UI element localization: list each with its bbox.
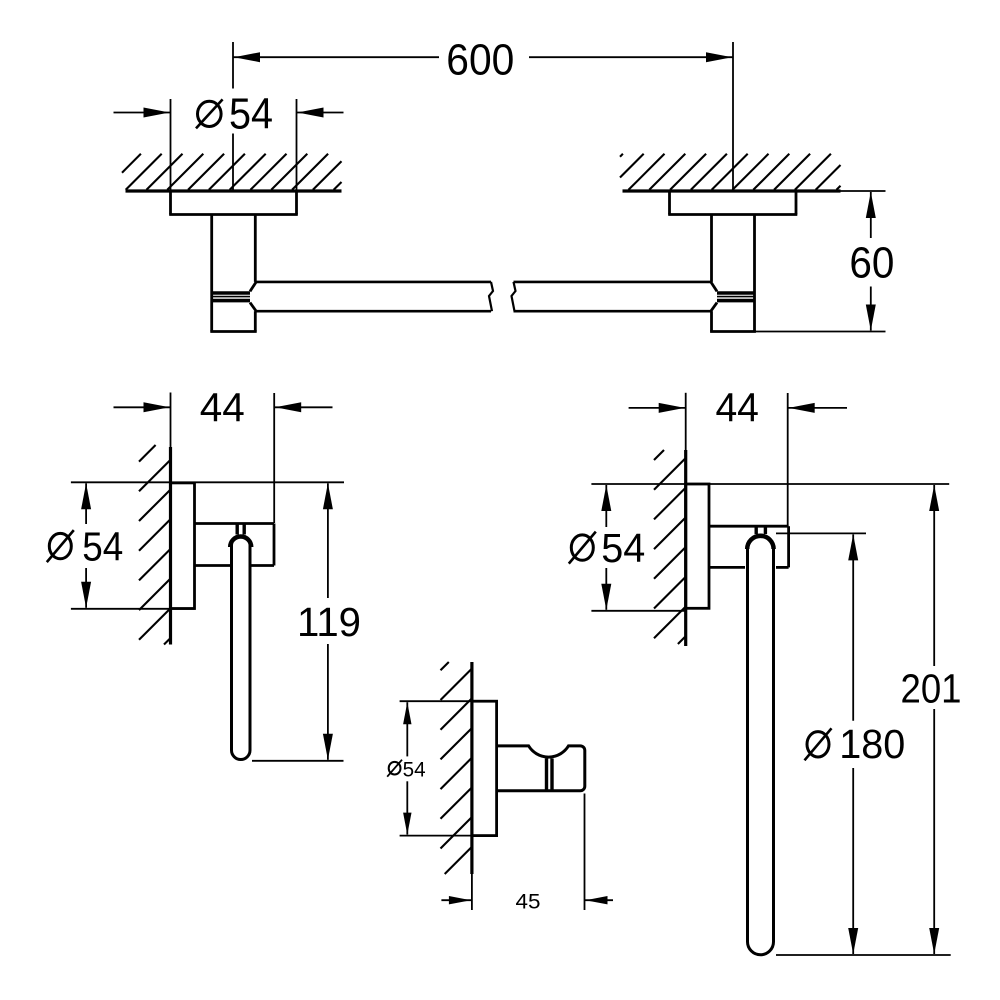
towel bar left segment with break <box>256 282 494 311</box>
svg-text:44: 44 <box>715 384 759 430</box>
wall line (middle-left drawing) <box>170 393 172 645</box>
bottom extension line of rosette (middle-right) <box>591 610 685 612</box>
top extension line of ring (D180) <box>776 532 866 534</box>
right bar-to-post cone <box>711 282 717 311</box>
dimension 45 (hook depth) <box>441 890 613 914</box>
dimension 44 extension line (post front, middle-left) <box>273 393 275 523</box>
wall hatch (middle-right drawing) <box>654 450 685 644</box>
pivot pin of paper holder <box>237 524 244 535</box>
svg-text:201: 201 <box>901 665 962 711</box>
pivot pin of towel ring <box>756 526 765 534</box>
right post collar (joint rings) <box>717 293 755 301</box>
dimension D54 (middle-left rosette diameter) <box>47 483 124 608</box>
roll holder arm (pill) <box>232 536 251 760</box>
dimension D54 (middle-right rosette diameter) <box>569 485 646 610</box>
dimension D54 extension lines (left rosette) <box>171 99 297 213</box>
wall plate (rosette) of paper holder <box>171 483 195 609</box>
shared top extension line (middle-left drawing) <box>71 481 344 483</box>
dimension 60 extension lines (wall to post bottom) <box>755 191 886 332</box>
svg-text:44: 44 <box>200 385 245 431</box>
svg-text:54: 54 <box>229 90 273 139</box>
dimension 60 (post height) <box>849 192 894 331</box>
dimension 600 (bar length) <box>233 36 733 85</box>
wall hatch (hook drawing) <box>441 662 472 874</box>
wall (top-left, hatched ceiling strip) <box>122 154 342 191</box>
dimension 45 extension line (hook tip) <box>584 794 586 911</box>
dimension 201 (overall height) <box>901 485 962 954</box>
dimension 44 extension line (post front, middle-right) <box>787 393 789 526</box>
svg-text:54: 54 <box>601 525 645 571</box>
hook body outline <box>497 746 585 791</box>
post of towel ring <box>709 526 789 567</box>
right post (cylinder) of towel bar <box>710 215 756 332</box>
hook D54 extension lines <box>400 701 497 835</box>
bottom extension line of rosette (middle-left) <box>71 608 195 610</box>
dimension D54 (hook rosette diameter) <box>387 702 425 834</box>
towel ring pivot cap <box>747 536 773 549</box>
shared top extension line (middle-right drawing) <box>591 483 949 485</box>
dimension 44 (middle-right depth) <box>629 384 847 430</box>
centre extension line of right post <box>732 42 734 190</box>
wall (top-right, hatched ceiling strip) <box>620 154 841 191</box>
wall plate (rosette) of towel ring <box>686 484 709 608</box>
dimension 119 (arm length) <box>297 483 361 760</box>
left wall plate (rosette) of towel bar <box>169 191 298 215</box>
centre extension line of left post <box>232 42 234 190</box>
svg-text:54: 54 <box>82 524 123 570</box>
dimension 44 (middle-left depth) <box>114 385 333 431</box>
svg-text:60: 60 <box>849 239 894 288</box>
svg-text:600: 600 <box>446 36 514 85</box>
towel bar right segment with break <box>512 282 712 311</box>
hook stem edge lines <box>547 759 553 791</box>
svg-text:54: 54 <box>403 757 426 781</box>
wall line (hook drawing) <box>470 662 473 910</box>
roll holder arm pivot cap <box>230 537 251 548</box>
svg-text:119: 119 <box>297 599 361 645</box>
right wall plate (rosette) of towel bar <box>668 191 797 215</box>
bottom extension line of ring <box>776 954 951 956</box>
left post (cylinder) of towel bar <box>210 215 256 332</box>
wall hatch (middle-left drawing) <box>139 445 170 645</box>
towel ring (edge view, pill) <box>748 535 774 955</box>
left bar-to-post cone <box>250 282 256 311</box>
dimension D180 (ring diameter) <box>805 534 906 954</box>
svg-text:45: 45 <box>516 890 541 914</box>
bottom extension line of arm (middle-left) <box>252 760 344 762</box>
svg-text:180: 180 <box>839 721 905 767</box>
post of paper holder <box>195 524 275 566</box>
dimension D54 (left rosette diameter) <box>114 90 344 139</box>
left post collar (joint rings) <box>212 293 250 301</box>
wall plate (rosette) of hook <box>472 701 497 835</box>
wall line (middle-right drawing) <box>685 393 687 646</box>
